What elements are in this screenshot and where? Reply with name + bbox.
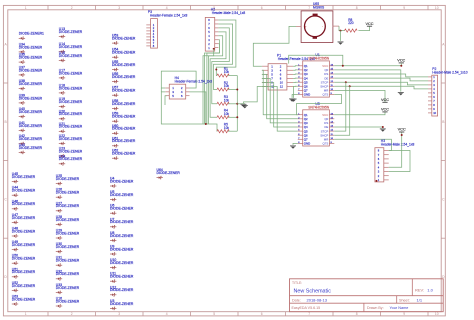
svg-text:220: 220 (348, 21, 354, 25)
ground (290, 146, 296, 149)
svg-text:DIODE-ZENER: DIODE-ZENER (59, 125, 83, 129)
diode-zener U32 (56, 269, 80, 280)
diode-zener U4 (110, 177, 134, 188)
svg-text:Date:: Date: (292, 299, 301, 303)
svg-text:9: 9 (403, 312, 405, 316)
svg-text:DIODE-ZENER1: DIODE-ZENER1 (19, 32, 44, 36)
wire P1 to U1 pin6 (293, 85, 298, 87)
svg-text:1/1: 1/1 (417, 298, 423, 303)
ground (242, 106, 248, 109)
svg-text:DIODE-ZENER: DIODE-ZENER (112, 37, 136, 41)
svg-text:DIODE-ZENER: DIODE-ZENER (59, 86, 83, 90)
svg-text:DIODE-ZENER: DIODE-ZENER (56, 218, 80, 222)
svg-text:DIODE-ZENER: DIODE-ZENER (12, 175, 36, 179)
svg-text:10: 10 (435, 6, 439, 10)
junction (205, 123, 207, 125)
diode-zener U34 (19, 42, 43, 53)
svg-text:DIODE-ZENER: DIODE-ZENER (56, 299, 80, 303)
wire resistor right lead (228, 103, 237, 105)
diode-zener U38 (19, 79, 43, 90)
diode-zener U49 (12, 240, 36, 251)
svg-text:Header-Female 2.54_2x3: Header-Female 2.54_2x3 (175, 79, 213, 83)
svg-text:DIODE-ZENER: DIODE-ZENER (112, 102, 136, 106)
diode-zener U47 (12, 213, 36, 224)
svg-text:DIODE-ZENER: DIODE-ZENER (112, 89, 136, 93)
wire P1 to U5 pin5 (262, 87, 298, 132)
svg-text:DIODE-ZENER: DIODE-ZENER (59, 54, 83, 58)
diode-zener U26 (56, 188, 80, 199)
diode-zener U33 (56, 283, 80, 294)
svg-text:12: 12 (280, 85, 284, 89)
svg-text:Header-Male 2.54_1x8: Header-Male 2.54_1x8 (212, 11, 246, 15)
wire P1 to U1 pin3 (293, 73, 298, 75)
junction (236, 103, 238, 105)
diode-zener U44b (157, 168, 181, 179)
svg-text:DIODE-ZENER: DIODE-ZENER (12, 229, 36, 233)
svg-text:3: 3 (118, 6, 120, 10)
diode-zener U24 (59, 154, 83, 165)
junction (340, 30, 342, 32)
svg-text:DIODE-ZENER: DIODE-ZENER (110, 288, 134, 292)
wire P1 to U5 pin1 (262, 70, 298, 114)
wire motor right to R8 (339, 26, 345, 31)
svg-text:DIODE-ZENER: DIODE-ZENER (112, 152, 136, 156)
wire U1 OE to P2 pin2 (334, 78, 428, 81)
diode-zener U60 (112, 124, 136, 135)
wire H2 to R1 (216, 20, 236, 76)
svg-text:8: 8 (356, 312, 358, 316)
motor U65 MG90S (296, 2, 339, 43)
svg-text:DIODE-ZENER: DIODE-ZENER (19, 45, 43, 49)
diode-zener U57 (112, 86, 136, 97)
diode-zener D1 (19, 32, 44, 40)
svg-text:DIODE-ZENER: DIODE-ZENER (59, 149, 83, 153)
diode-zener U12 (110, 285, 134, 296)
diode-zener U9 (110, 245, 134, 256)
wire H4 pin1-pin2 jumper (161, 71, 196, 88)
svg-text:4: 4 (166, 312, 168, 316)
wire motor left pin to P1 (253, 26, 296, 66)
svg-text:6: 6 (261, 6, 263, 10)
svg-text:DIODE-ZENER: DIODE-ZENER (110, 302, 134, 306)
wire P1 to U1 pin5 (293, 81, 298, 83)
wire H4 pin3 to bottom bus (161, 92, 217, 131)
connector H4 Header-Female 2x3 (165, 76, 212, 99)
wire H2 pin1 (203, 49, 214, 124)
svg-text:5: 5 (213, 312, 215, 316)
svg-text:DIODE-ZENER: DIODE-ZENER (110, 247, 134, 251)
wire U1 to P2 pin1 (334, 74, 428, 77)
wire H2 pin4 to bus (208, 36, 222, 124)
diode-zener U20 (59, 109, 83, 120)
connector P3 Header-Female 1x8 (146, 10, 187, 48)
svg-text:MG90S: MG90S (313, 5, 325, 9)
wire bus to ground (237, 103, 245, 106)
svg-text:10k: 10k (224, 112, 230, 116)
svg-text:VCC: VCC (397, 59, 405, 63)
diode-zener U52 (12, 281, 36, 292)
wire P1 to U5 pin3 (262, 78, 298, 123)
svg-text:SN74HC595N: SN74HC595N (308, 105, 330, 109)
wire H2 pin2 (205, 44, 220, 124)
resistor R4 10k (217, 109, 229, 119)
wire U1 Q7S to U5 DS (297, 95, 342, 115)
svg-text:1.0: 1.0 (427, 287, 433, 292)
wire R8 to VCC (358, 26, 369, 30)
svg-text:9: 9 (403, 6, 405, 10)
diode-zener U11 (110, 272, 134, 283)
svg-text:DIODE-ZENER: DIODE-ZENER (112, 51, 136, 55)
svg-text:DIODE-ZENER: DIODE-ZENER (110, 220, 134, 224)
diode-zener U14 (59, 42, 83, 53)
wire H4 left vertical (160, 88, 162, 92)
svg-text:Your Name: Your Name (390, 306, 409, 310)
svg-text:REV:: REV: (415, 287, 424, 292)
svg-text:DIODE-ZENER: DIODE-ZENER (112, 63, 136, 67)
title block (290, 279, 444, 312)
wire H2 to R2 (214, 24, 233, 90)
diode-zener U30 (56, 242, 80, 253)
diode-zener U23 (59, 147, 83, 158)
svg-text:8: 8 (356, 6, 358, 10)
diode-zener U59 (112, 112, 136, 123)
junction (400, 65, 402, 67)
diode-zener U13 (59, 27, 83, 38)
diode-zener U18 (59, 83, 83, 94)
svg-text:10: 10 (433, 111, 436, 115)
svg-text:10k: 10k (224, 126, 230, 130)
svg-text:VCC: VCC (365, 22, 373, 26)
wire resistor right lead (228, 116, 237, 118)
diode-zener U42 (19, 134, 43, 145)
wire P1 to U5 pin2 (262, 74, 298, 118)
junction (342, 65, 344, 67)
svg-text:DIODE-ZENER: DIODE-ZENER (12, 243, 36, 247)
wire resistor right lead (228, 130, 237, 132)
ground (380, 129, 386, 132)
diode-zener U54 (112, 48, 136, 59)
wire H4 pin5 down (165, 96, 167, 105)
diode-zener U6 (110, 204, 134, 215)
diode-zener U61 (112, 136, 136, 147)
junction (236, 89, 238, 91)
diode-zener U29 (56, 229, 80, 240)
svg-text:2018-08-13: 2018-08-13 (307, 298, 328, 303)
diode-zener U44 (12, 186, 36, 197)
connector H2 Header-Male 1x8 (205, 8, 245, 52)
svg-text:DIODE-ZENER: DIODE-ZENER (19, 124, 43, 128)
wire H4 pin4 right (190, 92, 206, 124)
connector P2 Header-Male 1x10 (428, 67, 468, 116)
svg-text:DIODE-ZENER: DIODE-ZENER (59, 112, 83, 116)
svg-text:DIODE-ZENER: DIODE-ZENER (12, 257, 36, 261)
power VCC (397, 59, 405, 63)
resistor R8 220 (345, 18, 358, 32)
wire resistor right bus (236, 76, 238, 132)
diode-zener U53 (112, 34, 136, 45)
svg-text:Drawn By:: Drawn By: (367, 306, 384, 310)
diode-zener U27 (56, 201, 80, 212)
svg-text:VCC: VCC (381, 98, 389, 102)
diode-zener U45 (12, 172, 36, 183)
diode-zener U31 (56, 256, 80, 267)
wire P1 to U1 pin1 (293, 65, 298, 67)
wire H2 to R4 (210, 32, 226, 117)
diode-zener U43 (19, 143, 43, 154)
op-amp U1 SN74HC595N (298, 53, 335, 97)
junction (382, 126, 384, 128)
diode-zener U16 (56, 297, 80, 308)
svg-text:2: 2 (71, 6, 73, 10)
svg-text:DIODE-ZENER: DIODE-ZENER (19, 137, 43, 141)
svg-text:DIODE-ZENER: DIODE-ZENER (112, 139, 136, 143)
svg-text:TITLE:: TITLE: (292, 281, 302, 285)
wire U1 STCP to P2 pin3 (334, 82, 428, 85)
svg-text:Q7S: Q7S (323, 142, 329, 146)
ground (398, 93, 404, 96)
svg-text:DIODE-ZENER: DIODE-ZENER (12, 284, 36, 288)
wire P1 to U1 pin2 (293, 69, 298, 71)
svg-text:2: 2 (71, 312, 73, 316)
wire H3 VCC (389, 132, 402, 167)
diode-zener U17 (59, 68, 83, 79)
wire U1 pin to ground (334, 70, 401, 92)
svg-text:DIODE-ZENER: DIODE-ZENER (59, 157, 83, 161)
wire P1 to U5 pin4 (262, 82, 298, 127)
ground (241, 104, 247, 107)
wire H2 pin3 to bus (207, 40, 220, 124)
svg-text:DIODE-ZENER: DIODE-ZENER (56, 245, 80, 249)
wire over U1 (289, 55, 343, 66)
svg-text:DIODE-ZENER: DIODE-ZENER (56, 286, 80, 290)
junction (345, 81, 347, 83)
op-amp U5 SN74HC595N (298, 102, 335, 146)
connector H3 Header-Male 1x8 (375, 139, 415, 182)
svg-text:DIODE-ZENER: DIODE-ZENER (110, 275, 134, 279)
diode-zener U37 (19, 65, 43, 76)
diode-zener U15 (59, 51, 83, 62)
wire SHCP bus (334, 86, 349, 135)
wire U1 MR to VCC (334, 90, 385, 102)
wire P1 pin11 to ground (244, 87, 262, 104)
svg-text:DIODE-ZENER: DIODE-ZENER (12, 270, 36, 274)
svg-text:DIODE-ZENER: DIODE-ZENER (19, 82, 43, 86)
svg-text:DIODE-ZENER: DIODE-ZENER (12, 202, 36, 206)
svg-text:7: 7 (308, 312, 310, 316)
power VCC (398, 128, 406, 132)
wire U1 SHCP to P2 pin4 (334, 86, 428, 89)
diode-zener U51 (12, 267, 36, 278)
diode-zener U8 (110, 231, 134, 242)
svg-text:DIODE-ZENER: DIODE-ZENER (56, 177, 80, 181)
diode-zener U22 (59, 134, 83, 145)
diode-zener U50 (12, 254, 36, 265)
diode-zener U56 (112, 72, 136, 83)
diode-zener U25 (56, 174, 80, 185)
diode-zener U21 (59, 122, 83, 133)
diode-zener U7 (110, 217, 134, 228)
diode-zener U40 (19, 107, 43, 118)
svg-text:New Schematic: New Schematic (294, 289, 332, 295)
svg-text:DIODE-ZENER: DIODE-ZENER (19, 68, 43, 72)
svg-text:DIODE-ZENER: DIODE-ZENER (56, 272, 80, 276)
svg-text:Header-Male 2.54_1x10: Header-Male 2.54_1x10 (432, 70, 468, 74)
svg-text:DIODE-ZENER: DIODE-ZENER (56, 231, 80, 235)
svg-text:DIODE-ZENER: DIODE-ZENER (59, 137, 83, 141)
wire H2 to R3 (212, 28, 230, 104)
power VCC (365, 22, 373, 26)
wire P1 pin12 to ground (292, 87, 295, 98)
power VCC (381, 98, 389, 102)
resistor R2 10k (217, 81, 229, 91)
svg-text:DIODE-ZENER: DIODE-ZENER (110, 207, 134, 211)
diode-zener U39 (19, 93, 43, 104)
svg-text:DIODE-ZENER: DIODE-ZENER (112, 75, 136, 79)
svg-text:6: 6 (261, 312, 263, 316)
svg-text:1: 1 (25, 6, 27, 10)
svg-text:DIODE-ZENER: DIODE-ZENER (56, 259, 80, 263)
resistor R1 10k (217, 67, 229, 77)
wire U1 GND (292, 95, 298, 98)
wire U5 GND (293, 143, 298, 145)
svg-text:Q7S: Q7S (323, 93, 329, 97)
svg-text:DIODE-ZENER: DIODE-ZENER (56, 191, 80, 195)
svg-text:DIODE-ZENER: DIODE-ZENER (110, 179, 134, 183)
svg-text:GND: GND (304, 142, 310, 146)
svg-text:Header-Male 2.54_1x8: Header-Male 2.54_1x8 (381, 142, 415, 146)
wire to ground (340, 31, 342, 41)
diode-zener U63 (12, 295, 36, 306)
svg-text:Sheet:: Sheet: (399, 299, 410, 303)
svg-text:DIODE-ZENER: DIODE-ZENER (110, 261, 134, 265)
svg-text:7: 7 (308, 6, 310, 10)
resistor R5 10k (217, 123, 229, 133)
power VCC (381, 108, 389, 112)
svg-text:VCC: VCC (398, 128, 406, 132)
svg-text:Header-Female 2.54_1x8: Header-Female 2.54_1x8 (150, 13, 188, 17)
wire U5 VCC (334, 112, 385, 115)
svg-text:10k: 10k (224, 84, 230, 88)
svg-text:DIODE-ZENER: DIODE-ZENER (12, 189, 36, 193)
junction (215, 69, 217, 71)
svg-text:DIODE-ZENER: DIODE-ZENER (59, 100, 83, 104)
diode-zener U41 (19, 121, 43, 132)
resistor R3 10k (217, 95, 229, 105)
svg-text:DIODE-ZENER: DIODE-ZENER (110, 193, 134, 197)
svg-text:10k: 10k (224, 70, 230, 74)
svg-text:DIODE-ZENER: DIODE-ZENER (19, 146, 43, 150)
svg-text:DIODE-ZENER: DIODE-ZENER (112, 115, 136, 119)
diode-zener U5 (110, 190, 134, 201)
svg-text:DIODE-ZENER: DIODE-ZENER (12, 216, 36, 220)
diode-zener U19 (59, 97, 83, 108)
junction (349, 85, 351, 87)
svg-text:DIODE-ZENER: DIODE-ZENER (19, 110, 43, 114)
diode-zener U35 (19, 53, 43, 64)
wire U5 OE to ground (334, 126, 383, 129)
svg-text:DIODE-ZENER: DIODE-ZENER (19, 56, 43, 60)
junction (236, 116, 238, 118)
connector P1 Header-Female 2x6 (262, 54, 315, 90)
diode-zener U10 (110, 258, 134, 269)
svg-text:DIODE-ZENER: DIODE-ZENER (59, 71, 83, 75)
diode-zener U58 (112, 99, 136, 110)
ground (289, 99, 295, 102)
ground (338, 42, 344, 45)
svg-text:10k: 10k (224, 98, 230, 102)
wire H3 loop (389, 151, 410, 172)
svg-text:SN74HC595N: SN74HC595N (308, 57, 330, 61)
svg-text:DIODE-ZENER: DIODE-ZENER (59, 30, 83, 34)
diode-zener U48 (12, 227, 36, 238)
wire U1 VCC (334, 65, 401, 67)
wire resistor right lead (228, 89, 237, 91)
svg-text:DIODE-ZENER: DIODE-ZENER (12, 297, 36, 301)
diode-zener U55 (112, 60, 136, 71)
svg-text:DIODE-ZENER: DIODE-ZENER (56, 204, 80, 208)
diode-zener U46 (12, 199, 36, 210)
wire P1 to U1 pin4 (293, 77, 298, 79)
svg-text:VCC: VCC (381, 108, 389, 112)
diode-zener U3 (110, 299, 134, 310)
svg-text:GND: GND (304, 93, 310, 97)
ground (291, 99, 297, 102)
diode-zener U28 (56, 215, 80, 226)
junction (401, 134, 403, 136)
svg-text:DIODE-ZENER: DIODE-ZENER (112, 127, 136, 131)
svg-text:DIODE-ZENER: DIODE-ZENER (19, 96, 43, 100)
svg-text:DIODE-ZENER: DIODE-ZENER (157, 171, 181, 175)
wire U5 MR to H3 (334, 139, 391, 150)
svg-text:DIODE-ZENER: DIODE-ZENER (59, 45, 83, 49)
svg-text:EasyEDA V5.6.15: EasyEDA V5.6.15 (292, 306, 321, 310)
svg-text:1: 1 (25, 312, 27, 316)
svg-text:3: 3 (118, 312, 120, 316)
wire resistor right lead (228, 75, 237, 77)
svg-text:4: 4 (166, 6, 168, 10)
wire STCP bus (334, 82, 346, 131)
diode-zener U62 (112, 149, 136, 160)
svg-text:DIODE-ZENER: DIODE-ZENER (110, 234, 134, 238)
svg-text:10: 10 (435, 312, 439, 316)
